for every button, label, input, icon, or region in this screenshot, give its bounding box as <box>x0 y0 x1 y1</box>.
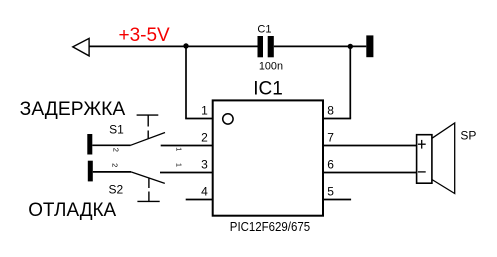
svg-text:ОТЛАДКА: ОТЛАДКА <box>28 200 116 221</box>
wire: vertical drop to pin 1 <box>185 46 187 118</box>
battery/supply bar <box>366 35 373 57</box>
wire: pin 1 stub <box>185 118 213 120</box>
wire: top rail right segment (C1 to supply bar) <box>274 45 367 47</box>
switch S1 actuator <box>137 114 159 116</box>
op IC1 body <box>213 100 323 215</box>
switch S2 actuator <box>148 179 150 189</box>
speaker - mark <box>418 171 426 173</box>
svg-text:2: 2 <box>111 163 120 167</box>
wire: pin 8 stub <box>323 118 351 120</box>
svg-text:1: 1 <box>174 147 183 151</box>
switch S1 blade <box>131 133 166 146</box>
svg-text:+3-5V: +3-5V <box>119 25 171 46</box>
switch S2 terminal bar <box>88 161 93 182</box>
svg-text:PIC12F629/675: PIC12F629/675 <box>230 219 310 234</box>
node junction at pin8 drop <box>348 44 353 49</box>
wire: S1 bar to pivot <box>92 144 130 146</box>
svg-text:C1: C1 <box>257 23 271 35</box>
svg-text:SP: SP <box>460 129 476 143</box>
wire: pin 3 to S2 contact <box>160 172 213 174</box>
node junction at pin1 drop <box>183 43 188 48</box>
supply arrow (open triangle, +3-5V net) <box>73 38 89 56</box>
wire: S2 bar to pivot <box>93 171 131 173</box>
svg-text:2: 2 <box>112 148 121 152</box>
svg-text:1: 1 <box>201 104 208 118</box>
wire: pin 2 to S1 contact <box>161 145 213 147</box>
svg-text:1: 1 <box>175 163 184 167</box>
svg-text:3: 3 <box>201 158 208 172</box>
speaker horn <box>432 123 455 194</box>
svg-text:S1: S1 <box>109 122 124 136</box>
pin-1 indicator circle <box>223 114 233 124</box>
capacitor C1 plates <box>258 36 264 57</box>
switch S1 terminal bar <box>87 134 92 155</box>
svg-text:8: 8 <box>327 104 334 118</box>
svg-text:ЗАДЕРЖКА: ЗАДЕРЖКА <box>20 99 126 120</box>
svg-text:S2: S2 <box>109 182 124 196</box>
svg-text:4: 4 <box>201 185 208 199</box>
speaker + mark <box>418 143 426 145</box>
switch S2 blade <box>131 172 165 184</box>
wire: pin 4 stub <box>186 199 213 201</box>
svg-text:100n: 100n <box>259 61 283 73</box>
wire: vertical drop to pin 8 <box>349 46 351 118</box>
svg-text:6: 6 <box>327 158 334 172</box>
wire: top rail left segment (arrow to C1) <box>89 45 257 47</box>
svg-text:IC1: IC1 <box>253 79 283 100</box>
speaker SP body <box>417 135 432 184</box>
svg-text:7: 7 <box>327 131 334 145</box>
wire: pin 5 stub <box>323 199 351 201</box>
svg-text:5: 5 <box>327 185 334 199</box>
wire: pin 7 to speaker <box>323 145 417 147</box>
svg-text:2: 2 <box>201 131 208 145</box>
wire: pin 6 to speaker <box>323 172 417 174</box>
